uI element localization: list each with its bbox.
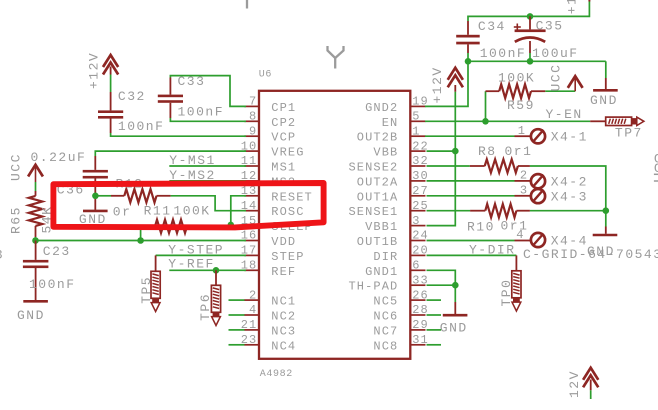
svg-text:31: 31 bbox=[412, 333, 429, 347]
node Y-REF/TP6 junction bbox=[213, 267, 220, 274]
wire NC stub pin 4 bbox=[229, 314, 245, 316]
svg-text:Y-STEP: Y-STEP bbox=[168, 243, 224, 258]
svg-text:1: 1 bbox=[412, 124, 420, 138]
svg-text:Y-EN: Y-EN bbox=[546, 107, 583, 122]
svg-text:+12V: +12V bbox=[87, 52, 102, 89]
wire Y-EN net (pin 5 to TP7) bbox=[425, 120, 590, 122]
svg-text:OUT1B: OUT1B bbox=[357, 235, 399, 249]
value 100uF (C35) bbox=[532, 46, 579, 61]
svg-text:29: 29 bbox=[412, 318, 429, 332]
svg-text:100nF: 100nF bbox=[118, 119, 165, 134]
label C23 bbox=[43, 244, 71, 259]
svg-text:R59: R59 bbox=[507, 98, 535, 113]
svg-text:4: 4 bbox=[249, 303, 257, 317]
wire TP7 lead bbox=[590, 120, 606, 122]
supply +12V (bottom right) bbox=[583, 368, 598, 391]
node VREG/R12 junction bbox=[92, 193, 99, 200]
svg-text:GND: GND bbox=[587, 244, 615, 259]
wire R12 to pin 14 ROSC bbox=[171, 196, 246, 211]
svg-text:CP1: CP1 bbox=[271, 101, 296, 115]
pin 28 (NC6) right stub bbox=[373, 303, 428, 323]
svg-text:GND: GND bbox=[440, 321, 468, 336]
label GND (top right) bbox=[590, 93, 618, 108]
svg-text:C35: C35 bbox=[536, 19, 564, 34]
wire VBB pin 22 bbox=[427, 150, 456, 152]
svg-text:NC3: NC3 bbox=[271, 324, 296, 338]
ground (top right) bbox=[593, 89, 618, 92]
resistor R10 bbox=[470, 204, 530, 217]
value 0r (R12) bbox=[113, 204, 132, 219]
svg-text:NC7: NC7 bbox=[373, 324, 398, 338]
label R8 bbox=[478, 144, 497, 159]
label Y-EN bbox=[546, 107, 583, 122]
wire SENSE1 to R10 bbox=[427, 210, 471, 212]
IC value A4982 bbox=[260, 369, 293, 380]
wire R8 to sense GND riser bbox=[530, 166, 606, 211]
svg-text:12V: 12V bbox=[567, 370, 582, 398]
wire OUT1A to X4-3 bbox=[427, 195, 531, 197]
svg-text:C34: C34 bbox=[478, 19, 506, 34]
highlight box (red annotation) bbox=[53, 183, 323, 227]
ground (under C36) bbox=[83, 210, 108, 213]
svg-text:0r1: 0r1 bbox=[505, 144, 533, 159]
wire pin 13 RESET to SLEEP net bbox=[231, 196, 246, 226]
capacitor C34 bbox=[456, 21, 480, 53]
pin 32 (SENSE2) right stub bbox=[348, 154, 428, 174]
node RESET/SLEEP junction bbox=[228, 222, 235, 229]
svg-text:3: 3 bbox=[0, 247, 4, 262]
svg-text:R11: R11 bbox=[144, 204, 172, 219]
value 0r1 (R10) bbox=[501, 218, 529, 233]
wire NC stub pin 28 bbox=[427, 314, 442, 316]
pin number 4 (X4-4) bbox=[516, 228, 524, 242]
IC name U6 bbox=[259, 70, 272, 81]
wire Y-MS1 net (pin 11) bbox=[169, 165, 246, 167]
svg-text:OUT2A: OUT2A bbox=[357, 175, 399, 189]
wire OUT1B to X4-4 bbox=[427, 240, 531, 242]
svg-text:24: 24 bbox=[412, 229, 429, 243]
test point TP7 bbox=[606, 117, 644, 125]
svg-text:EN: EN bbox=[382, 116, 399, 130]
svg-text:TP6: TP6 bbox=[198, 293, 213, 321]
svg-text:27: 27 bbox=[412, 184, 429, 198]
pin 18 (REF) left stub bbox=[241, 259, 297, 279]
svg-text:+12V: +12V bbox=[430, 66, 445, 103]
svg-text:CP2: CP2 bbox=[271, 116, 296, 130]
pin number 2 (X4-2) bbox=[520, 169, 528, 183]
pin 8 (CP2) left stub bbox=[244, 110, 296, 130]
svg-text:100K: 100K bbox=[173, 204, 210, 219]
svg-text:UCC: UCC bbox=[8, 153, 23, 181]
label C35 bbox=[536, 19, 564, 34]
svg-text:MS1: MS1 bbox=[271, 161, 296, 175]
capacitor C33 bbox=[158, 78, 183, 119]
label R65 bbox=[9, 206, 24, 234]
svg-text:X4-1: X4-1 bbox=[551, 130, 588, 145]
pin 19 (GND2) right stub bbox=[365, 95, 429, 115]
label Y-REF bbox=[168, 256, 215, 271]
capacitor C35 (polarized) bbox=[514, 16, 546, 53]
wire OUT2A to X4-2 bbox=[427, 180, 531, 182]
ground (sense) bbox=[593, 234, 618, 237]
wire Y-MS2 net (pin 12) bbox=[169, 180, 246, 182]
label +12V (top left) bbox=[87, 52, 102, 89]
supply UCC (right) bbox=[568, 76, 583, 91]
node C34 bottom junction bbox=[465, 58, 472, 65]
capacitor C36 bbox=[83, 156, 108, 210]
pin 5 (EN) right stub bbox=[382, 110, 426, 130]
node sense GND junction bbox=[603, 207, 610, 214]
test point TP0 bbox=[512, 271, 521, 311]
label GND (pin 33) bbox=[440, 321, 468, 336]
pin 23 (NC4) left stub bbox=[241, 333, 297, 353]
wire C33 bottom to pin 8 CP2 bbox=[170, 118, 246, 121]
label UCC (left) bbox=[8, 153, 23, 181]
ground (pin 33) bbox=[443, 314, 468, 317]
svg-text:R65: R65 bbox=[9, 206, 24, 234]
svg-text:100uF: 100uF bbox=[532, 46, 579, 61]
label fragment (left edge) bbox=[0, 247, 4, 262]
pin 17 (STEP) left stub bbox=[241, 244, 305, 264]
wire +12V to C32 bbox=[110, 75, 112, 93]
svg-text:3: 3 bbox=[520, 184, 528, 198]
label TP5 bbox=[139, 276, 154, 304]
svg-text:NC4: NC4 bbox=[271, 339, 296, 353]
svg-text:VBB: VBB bbox=[373, 146, 398, 160]
wire TH-PAD GND drop bbox=[454, 285, 456, 314]
wire NC stub pin 31 bbox=[427, 344, 442, 346]
svg-text:NC2: NC2 bbox=[271, 310, 296, 324]
svg-text:VREG: VREG bbox=[271, 146, 304, 160]
pin 30 (OUT2A) right stub bbox=[357, 169, 429, 189]
label GND (under C36) bbox=[79, 212, 107, 227]
svg-text:+12V: +12V bbox=[564, 0, 579, 14]
svg-text:NC1: NC1 bbox=[271, 295, 296, 309]
wire +12V top rail bbox=[468, 0, 589, 21]
svg-text:0.22uF: 0.22uF bbox=[31, 150, 87, 165]
svg-text:3: 3 bbox=[412, 214, 420, 228]
label Y-DIR bbox=[469, 242, 516, 257]
value 100nF (C33) bbox=[178, 105, 225, 120]
pin 4 (NC2) left stub bbox=[244, 303, 296, 323]
svg-text:A4982: A4982 bbox=[260, 369, 293, 380]
svg-text:C33: C33 bbox=[178, 74, 206, 89]
label C32 bbox=[118, 89, 146, 104]
node riser/VDD junction bbox=[137, 237, 144, 244]
pin 7 (CP1) left stub bbox=[244, 95, 296, 115]
svg-text:Y-DIR: Y-DIR bbox=[469, 242, 516, 257]
pin 33 (TH-PAD) right stub bbox=[348, 273, 428, 293]
label TP6 bbox=[198, 293, 213, 321]
wire UCC to R65 bbox=[35, 182, 37, 196]
label TP0 bbox=[499, 279, 514, 307]
capacitor C23 bbox=[23, 241, 49, 301]
svg-text:R8: R8 bbox=[478, 144, 497, 159]
label +12V (top edge, cut) bbox=[564, 0, 579, 14]
pin 26 (NC5) right stub bbox=[373, 288, 428, 308]
resistor R59 bbox=[486, 84, 546, 98]
wire Y-DIR net (pin 20) bbox=[427, 254, 517, 256]
wire C33 top to pin 7 CP1 bbox=[170, 76, 246, 107]
svg-text:REF: REF bbox=[271, 265, 296, 279]
label R59 bbox=[507, 98, 535, 113]
svg-text:8: 8 bbox=[249, 110, 257, 124]
pin 16 (VDD) left stub bbox=[241, 229, 297, 249]
terminal X4-1 bbox=[531, 129, 545, 143]
label Y (axis name) bbox=[328, 46, 344, 69]
label X4-2 bbox=[551, 174, 588, 189]
label X4-1 bbox=[551, 130, 588, 145]
wire NC stub pin 23 bbox=[229, 344, 245, 346]
supply UCC (left) bbox=[28, 165, 43, 182]
capacitor C32 bbox=[98, 92, 123, 133]
resistor R8 bbox=[470, 159, 530, 172]
pin number 1 (X4-1) bbox=[518, 124, 526, 138]
label R10 bbox=[467, 219, 495, 234]
svg-text:VBB1: VBB1 bbox=[365, 220, 398, 234]
label fragments (right edge) bbox=[654, 152, 658, 182]
wire R59 to UCC bbox=[545, 90, 575, 92]
resistor R65 bbox=[29, 196, 43, 226]
svg-text:GND: GND bbox=[17, 308, 45, 323]
svg-text:OUT1A: OUT1A bbox=[357, 190, 399, 204]
svg-text:C23: C23 bbox=[43, 244, 71, 259]
svg-text:X4-3: X4-3 bbox=[551, 189, 588, 204]
wire TP5 lead bbox=[155, 255, 157, 271]
value 100K (R59) bbox=[498, 71, 535, 86]
label GND (under C23) bbox=[17, 308, 45, 323]
pin 15 (SLEEP) left stub bbox=[241, 214, 313, 234]
label R12 bbox=[116, 176, 144, 191]
pin 9 (VCP) left stub bbox=[244, 124, 296, 144]
svg-text:100nF: 100nF bbox=[480, 46, 527, 61]
label Y-MS2 bbox=[169, 168, 216, 183]
pin 13 (RESET) left stub bbox=[241, 184, 313, 204]
pin 29 (NC7) right stub bbox=[373, 318, 428, 338]
svg-text:Y-MS1: Y-MS1 bbox=[169, 153, 216, 168]
svg-text:GND2: GND2 bbox=[365, 101, 398, 115]
svg-text:TP7: TP7 bbox=[615, 126, 643, 141]
test point TP5 bbox=[151, 271, 160, 311]
terminal X4-3 bbox=[531, 189, 545, 203]
wire VDD net to pin 16 bbox=[36, 240, 247, 242]
label C36 bbox=[57, 183, 85, 198]
wire VREG net (C36 to pin 10) bbox=[95, 151, 246, 156]
pin 21 (NC3) left stub bbox=[241, 318, 297, 338]
svg-text:2: 2 bbox=[249, 288, 257, 302]
label stem fragment (top edge) bbox=[246, 0, 248, 9]
pin 31 (NC8) right stub bbox=[373, 333, 428, 353]
svg-text:U6: U6 bbox=[259, 70, 272, 81]
wire NC stub pin 29 bbox=[427, 329, 442, 331]
wire GND rail (C34/C35 bottoms) bbox=[468, 53, 606, 61]
svg-text:0r: 0r bbox=[113, 204, 132, 219]
svg-text:C32: C32 bbox=[118, 89, 146, 104]
svg-text:DIR: DIR bbox=[373, 250, 398, 264]
IC U6 (A4982 stepper driver) body bbox=[259, 91, 410, 359]
node TH-PAD junction bbox=[452, 282, 459, 289]
svg-text:OUT2B: OUT2B bbox=[357, 131, 399, 145]
wire Y-REF net (pin 18) bbox=[169, 269, 246, 271]
wire +12V to VBB/VBB1 bbox=[427, 92, 456, 226]
wire C36 node to R12 bbox=[95, 195, 111, 197]
wire sense GND drop bbox=[605, 211, 607, 234]
resistor R12 bbox=[111, 189, 171, 202]
svg-text:RESET: RESET bbox=[271, 190, 313, 204]
value 100nF (C34) bbox=[480, 46, 527, 61]
node EN/R59 junction bbox=[482, 118, 489, 125]
label +12V (middle) bbox=[430, 66, 445, 103]
svg-text:VDD: VDD bbox=[271, 235, 296, 249]
pin 12 (MS2) left stub bbox=[241, 169, 297, 189]
svg-text:100K: 100K bbox=[498, 71, 535, 86]
label UCC (right) bbox=[548, 64, 563, 92]
svg-text:26: 26 bbox=[412, 288, 429, 302]
pin 14 (ROSC) left stub bbox=[241, 199, 305, 219]
node C35 top junction bbox=[527, 13, 534, 20]
svg-text:2: 2 bbox=[520, 169, 528, 183]
label GND (sense) bbox=[587, 244, 615, 259]
svg-text:28: 28 bbox=[412, 303, 429, 317]
pin 25 (SENSE1) right stub bbox=[348, 199, 428, 219]
value 100nF (C32) bbox=[118, 119, 165, 134]
label X4-3 bbox=[551, 189, 588, 204]
terminal X4-2 bbox=[531, 174, 545, 188]
svg-text:100nF: 100nF bbox=[29, 277, 76, 292]
svg-text:TP0: TP0 bbox=[499, 279, 514, 307]
svg-text:0r1: 0r1 bbox=[501, 218, 529, 233]
svg-text:R10: R10 bbox=[467, 219, 495, 234]
terminal X4-4 bbox=[531, 233, 545, 247]
wire NC stub pin 21 bbox=[229, 329, 245, 331]
svg-text:SENSE2: SENSE2 bbox=[348, 161, 398, 175]
supply +12V (top left) bbox=[103, 55, 118, 75]
wire TP6 lead bbox=[215, 270, 217, 285]
svg-text:NC5: NC5 bbox=[373, 295, 398, 309]
pin 2 (NC1) left stub bbox=[244, 288, 296, 308]
ground (under C23) bbox=[23, 300, 48, 303]
wire TH-PAD pin 33 bbox=[427, 284, 456, 286]
pin 6 (GND1) right stub bbox=[365, 259, 425, 279]
svg-text:SENSE1: SENSE1 bbox=[348, 205, 398, 219]
wire C32 to pin 9 VCP bbox=[111, 133, 246, 136]
svg-text:30: 30 bbox=[412, 169, 429, 183]
wire R65 to VDD node bbox=[35, 226, 37, 241]
pin 11 (MS1) left stub bbox=[241, 154, 297, 174]
wire +12V stub (bottom right) bbox=[590, 390, 592, 399]
svg-text:X4-2: X4-2 bbox=[551, 174, 588, 189]
label C34 bbox=[478, 19, 506, 34]
resistor R11 bbox=[146, 220, 194, 233]
svg-text:GND1: GND1 bbox=[365, 265, 398, 279]
wire GND drop (top right) bbox=[605, 61, 607, 89]
svg-text:9: 9 bbox=[249, 124, 257, 138]
svg-text:100nF: 100nF bbox=[178, 105, 225, 120]
wire TP0 lead bbox=[515, 255, 517, 270]
wire SENSE2 to R8 bbox=[427, 165, 470, 167]
svg-text:TP5: TP5 bbox=[139, 276, 154, 304]
svg-text:20: 20 bbox=[412, 244, 429, 258]
node VBB junction bbox=[452, 148, 459, 155]
svg-text:ROSC: ROSC bbox=[271, 205, 304, 219]
svg-text:Y-REF: Y-REF bbox=[168, 256, 215, 271]
svg-text:32: 32 bbox=[412, 154, 429, 168]
svg-text:GND: GND bbox=[590, 93, 618, 108]
svg-text:6: 6 bbox=[412, 259, 420, 273]
wire Y-STEP net (pin 17) bbox=[156, 254, 246, 256]
wire GND1 to ground bbox=[427, 270, 456, 285]
label C33 bbox=[178, 74, 206, 89]
wire GND2 to rail bbox=[425, 61, 468, 106]
pin 24 (OUT1B) right stub bbox=[357, 229, 429, 249]
label 12V (bottom right) bbox=[567, 370, 582, 398]
pin 22 (VBB) right stub bbox=[373, 139, 428, 159]
value 0.22uF (C36) bbox=[31, 150, 87, 165]
wire OUT2B to X4-1 bbox=[425, 135, 530, 137]
wire R11 to VDD net riser bbox=[140, 228, 142, 241]
supply +12V (middle) bbox=[448, 68, 463, 92]
label TP7 bbox=[615, 126, 643, 141]
label Y-MS1 bbox=[169, 153, 216, 168]
svg-text:STEP: STEP bbox=[271, 250, 304, 264]
svg-text:33: 33 bbox=[412, 273, 429, 287]
test point TP6 bbox=[211, 285, 220, 325]
pin 20 (DIR) right stub bbox=[373, 244, 428, 264]
value 0r1 (R8) bbox=[505, 144, 533, 159]
svg-text:7: 7 bbox=[249, 95, 257, 109]
pin 3 (VBB1) right stub bbox=[365, 214, 425, 234]
pin 1 (OUT2B) right stub bbox=[357, 124, 426, 144]
wire NC stub pin 26 bbox=[427, 299, 442, 301]
pin 27 (OUT1A) right stub bbox=[357, 184, 429, 204]
svg-text:5: 5 bbox=[412, 110, 420, 124]
svg-text:TH-PAD: TH-PAD bbox=[348, 280, 398, 294]
wire R59 riser bbox=[485, 91, 487, 121]
node C35 bottom junction bbox=[527, 58, 534, 65]
pin 10 (VREG) left stub bbox=[241, 139, 305, 159]
value 54K (R65) bbox=[40, 206, 55, 234]
label R11 100K bbox=[144, 204, 211, 219]
label X4-4 bbox=[551, 234, 588, 249]
label C-GRID-64-70543 bbox=[523, 247, 658, 262]
svg-text:NC6: NC6 bbox=[373, 310, 398, 324]
label Y-STEP bbox=[168, 243, 224, 258]
value 100nF (C23) bbox=[29, 277, 76, 292]
wire R10 to sense GND riser bbox=[530, 210, 606, 212]
svg-text:NC8: NC8 bbox=[373, 339, 398, 353]
svg-text:25: 25 bbox=[412, 199, 429, 213]
pin number 3 (X4-3) bbox=[520, 184, 528, 198]
svg-text:1: 1 bbox=[518, 124, 526, 138]
svg-text:UCC: UCC bbox=[548, 64, 563, 92]
svg-text:VCP: VCP bbox=[271, 131, 296, 145]
node R65/VDD junction bbox=[32, 237, 39, 244]
svg-text:22: 22 bbox=[412, 139, 429, 153]
wire NC stub pin 2 bbox=[229, 299, 245, 301]
